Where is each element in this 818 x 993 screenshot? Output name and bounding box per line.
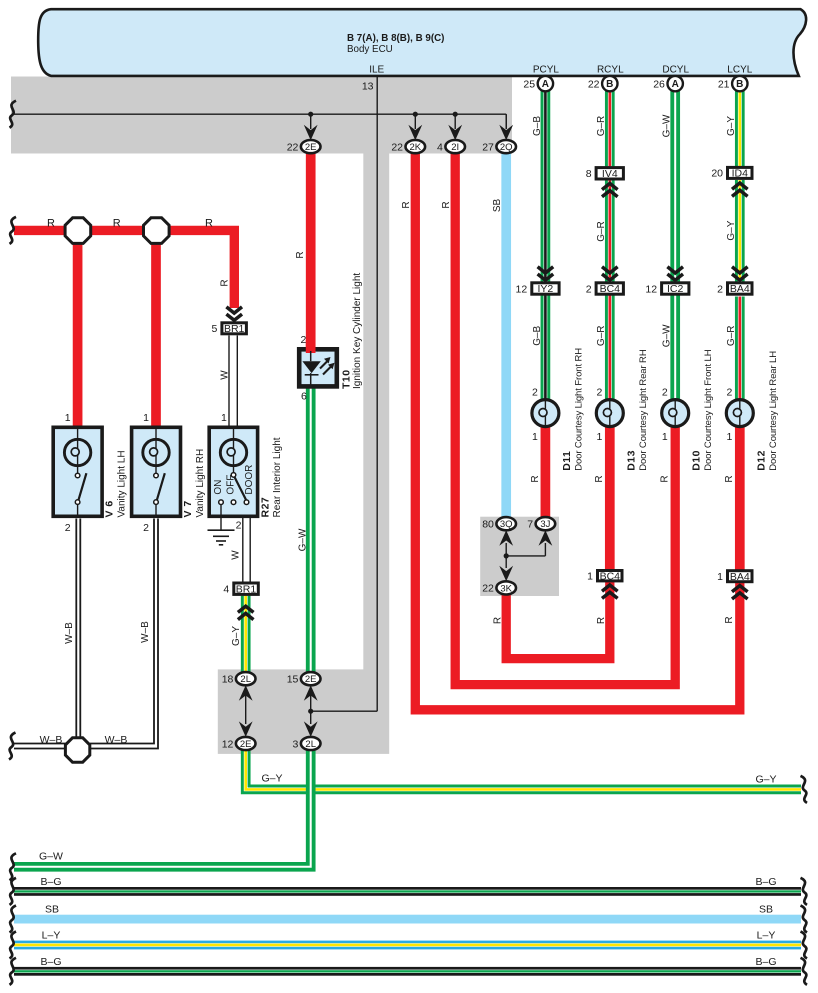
svg-text:26: 26 xyxy=(653,78,665,90)
svg-text:7: 7 xyxy=(527,519,533,531)
svg-text:SB: SB xyxy=(759,904,773,916)
svg-text:G–W: G–W xyxy=(298,528,309,551)
svg-text:2I: 2I xyxy=(451,142,459,153)
svg-text:L–Y: L–Y xyxy=(42,930,61,942)
svg-text:2: 2 xyxy=(586,283,592,295)
svg-text:W: W xyxy=(231,550,242,560)
svg-text:B–G: B–G xyxy=(755,956,776,968)
svg-text:W–B: W–B xyxy=(40,734,63,746)
svg-text:2: 2 xyxy=(143,522,149,534)
svg-text:12: 12 xyxy=(222,738,234,750)
svg-text:R: R xyxy=(493,617,504,624)
svg-text:D12: D12 xyxy=(755,450,767,471)
svg-text:G–R: G–R xyxy=(596,326,607,347)
svg-text:25: 25 xyxy=(523,78,535,90)
svg-text:B–G: B–G xyxy=(40,876,61,888)
svg-text:BA4: BA4 xyxy=(730,571,750,583)
svg-text:T10: T10 xyxy=(341,369,353,389)
svg-text:R: R xyxy=(530,475,541,482)
svg-text:15: 15 xyxy=(287,674,299,686)
svg-text:G–Y: G–Y xyxy=(726,220,737,240)
svg-text:2: 2 xyxy=(662,386,668,398)
svg-text:IV4: IV4 xyxy=(602,168,618,180)
svg-text:SB: SB xyxy=(45,904,59,916)
svg-text:ID4: ID4 xyxy=(732,168,749,180)
svg-text:20: 20 xyxy=(711,168,723,180)
svg-text:22: 22 xyxy=(588,78,600,90)
svg-text:5: 5 xyxy=(212,323,218,335)
svg-text:G–Y: G–Y xyxy=(726,116,737,136)
svg-text:BC4: BC4 xyxy=(600,570,621,582)
svg-text:W–B: W–B xyxy=(105,734,128,746)
svg-text:2: 2 xyxy=(532,386,538,398)
svg-text:3J: 3J xyxy=(540,519,550,530)
svg-text:2: 2 xyxy=(236,520,242,532)
svg-text:2E: 2E xyxy=(240,739,252,750)
svg-text:1: 1 xyxy=(143,412,149,424)
svg-text:8: 8 xyxy=(586,168,592,180)
svg-text:1: 1 xyxy=(532,431,538,443)
svg-text:12: 12 xyxy=(516,283,528,295)
svg-text:BC4: BC4 xyxy=(600,283,621,295)
svg-text:R: R xyxy=(594,475,605,482)
svg-text:LCYL: LCYL xyxy=(727,64,752,75)
svg-text:B 7(A), B 8(B), B 9(C): B 7(A), B 8(B), B 9(C) xyxy=(347,33,444,44)
svg-text:R: R xyxy=(47,218,55,230)
svg-text:22: 22 xyxy=(287,141,299,153)
svg-text:3Q: 3Q xyxy=(500,519,513,530)
svg-text:V 6: V 6 xyxy=(104,500,116,517)
svg-text:D11: D11 xyxy=(561,451,573,471)
svg-text:A: A xyxy=(542,79,549,90)
svg-text:2: 2 xyxy=(65,522,71,534)
svg-text:IC2: IC2 xyxy=(667,283,684,295)
svg-text:L–Y: L–Y xyxy=(757,930,776,942)
svg-text:G–W: G–W xyxy=(661,324,672,347)
svg-text:1: 1 xyxy=(726,431,732,443)
svg-text:Ignition Key Cylinder Light: Ignition Key Cylinder Light xyxy=(352,273,363,389)
svg-text:SB: SB xyxy=(492,199,503,213)
svg-text:R: R xyxy=(724,475,735,482)
svg-text:G–W: G–W xyxy=(39,850,63,862)
svg-text:DOOR: DOOR xyxy=(244,465,255,495)
svg-text:ILE: ILE xyxy=(369,64,384,75)
svg-text:D10: D10 xyxy=(691,450,703,471)
svg-text:2K: 2K xyxy=(409,142,421,153)
svg-text:B–G: B–G xyxy=(755,876,776,888)
svg-text:27: 27 xyxy=(482,141,494,153)
svg-text:4: 4 xyxy=(223,584,229,596)
svg-text:1: 1 xyxy=(221,412,227,424)
svg-text:G–R: G–R xyxy=(726,326,737,347)
svg-text:2: 2 xyxy=(726,386,732,398)
svg-text:12: 12 xyxy=(645,283,657,295)
svg-text:W–B: W–B xyxy=(140,621,151,643)
svg-text:Rear Interior Light: Rear Interior Light xyxy=(272,437,283,517)
svg-text:R: R xyxy=(113,218,121,230)
svg-text:18: 18 xyxy=(222,674,234,686)
svg-text:Door Courtesy Light Front LH: Door Courtesy Light Front LH xyxy=(703,349,714,471)
svg-text:B: B xyxy=(736,79,743,90)
svg-text:G–R: G–R xyxy=(596,221,607,242)
svg-text:B: B xyxy=(606,79,613,90)
svg-text:13: 13 xyxy=(362,81,374,93)
svg-text:R: R xyxy=(219,279,230,286)
svg-text:1: 1 xyxy=(587,571,593,583)
svg-text:W: W xyxy=(219,370,230,380)
svg-text:G–B: G–B xyxy=(532,116,543,136)
svg-text:D13: D13 xyxy=(625,450,637,471)
svg-text:2: 2 xyxy=(717,283,723,295)
svg-text:1: 1 xyxy=(717,571,723,583)
svg-text:2E: 2E xyxy=(305,142,317,153)
svg-text:R: R xyxy=(205,218,213,230)
svg-text:G–Y: G–Y xyxy=(261,772,282,784)
svg-text:22: 22 xyxy=(391,141,403,153)
svg-text:2L: 2L xyxy=(240,674,251,685)
svg-text:R27: R27 xyxy=(259,497,271,518)
svg-text:RCYL: RCYL xyxy=(597,64,624,75)
svg-text:Door Courtesy Light Rear RH: Door Courtesy Light Rear RH xyxy=(638,349,649,471)
svg-text:W–B: W–B xyxy=(64,622,75,644)
svg-text:R: R xyxy=(441,201,452,208)
svg-text:G–R: G–R xyxy=(596,116,607,137)
svg-text:1: 1 xyxy=(596,431,602,443)
svg-text:2L: 2L xyxy=(305,739,316,750)
svg-text:G–Y: G–Y xyxy=(231,626,242,646)
svg-text:BR1: BR1 xyxy=(236,583,257,595)
svg-text:R: R xyxy=(401,201,412,208)
svg-text:BR1: BR1 xyxy=(224,323,245,335)
svg-text:21: 21 xyxy=(718,78,730,90)
svg-text:OFF: OFF xyxy=(225,475,236,495)
svg-text:Door Courtesy Light Rear LH: Door Courtesy Light Rear LH xyxy=(768,351,779,471)
svg-text:V 7: V 7 xyxy=(182,500,194,517)
svg-text:ON: ON xyxy=(213,480,224,495)
svg-text:G–B: G–B xyxy=(532,325,543,345)
svg-text:R: R xyxy=(659,475,670,482)
svg-text:4: 4 xyxy=(437,141,443,153)
svg-text:3: 3 xyxy=(293,738,299,750)
svg-text:2: 2 xyxy=(300,334,306,346)
svg-text:Vanity Light LH: Vanity Light LH xyxy=(117,450,128,517)
svg-text:DCYL: DCYL xyxy=(662,64,689,75)
svg-text:2: 2 xyxy=(596,386,602,398)
svg-text:2E: 2E xyxy=(305,674,317,685)
svg-text:1: 1 xyxy=(65,412,71,424)
svg-text:22: 22 xyxy=(482,583,494,595)
svg-text:G–W: G–W xyxy=(661,114,672,137)
svg-text:2Q: 2Q xyxy=(500,142,513,153)
svg-text:3K: 3K xyxy=(500,583,512,594)
svg-text:R: R xyxy=(724,616,735,623)
svg-text:A: A xyxy=(672,79,679,90)
svg-text:R: R xyxy=(295,251,306,258)
svg-text:IY2: IY2 xyxy=(538,283,554,295)
svg-text:Body ECU: Body ECU xyxy=(347,44,393,55)
svg-text:G–Y: G–Y xyxy=(755,773,776,785)
svg-text:BA4: BA4 xyxy=(730,283,750,295)
svg-text:PCYL: PCYL xyxy=(533,64,560,75)
svg-text:B–G: B–G xyxy=(40,956,61,968)
svg-text:1: 1 xyxy=(662,431,668,443)
svg-text:Vanity Light RH: Vanity Light RH xyxy=(195,449,206,518)
svg-text:80: 80 xyxy=(482,519,494,531)
svg-text:R: R xyxy=(596,617,607,624)
svg-text:Door Courtesy Light Front RH: Door Courtesy Light Front RH xyxy=(573,348,584,471)
svg-text:6: 6 xyxy=(301,391,307,403)
